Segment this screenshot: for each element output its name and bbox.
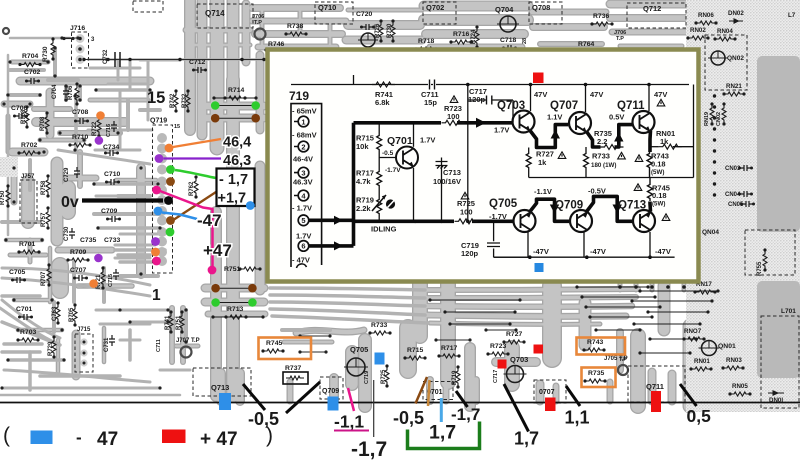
- resistor RN03: [724, 366, 742, 370]
- capacitor C717 wire: [468, 100, 513, 122]
- svg-text:C734: C734: [103, 144, 119, 151]
- inset labels: [289, 87, 675, 265]
- node marker purple: [155, 154, 164, 163]
- svg-text:Q702: Q702: [426, 3, 444, 12]
- svg-text:15p: 15p: [424, 98, 437, 107]
- svg-text:1,7: 1,7: [429, 422, 456, 444]
- wire Q707 collector: [585, 85, 587, 113]
- capacitor CN05: [742, 201, 753, 207]
- svg-text:46,4: 46,4: [223, 135, 251, 151]
- pointer brown: [416, 377, 428, 404]
- svg-text:L701: L701: [781, 308, 796, 315]
- capacitor C711: [430, 80, 435, 90]
- svg-text:(5W): (5W): [651, 169, 664, 176]
- svg-text:15: 15: [147, 89, 165, 107]
- wire vertical join: [352, 123, 356, 246]
- svg-text:47: 47: [97, 429, 118, 450]
- svg-text:R727: R727: [506, 331, 522, 338]
- marker red square top: [533, 73, 544, 84]
- node marker blue: [154, 207, 163, 216]
- wire Q701 collector: [413, 123, 415, 147]
- svg-text:J716: J716: [70, 25, 85, 32]
- svg-text:T.P: T.P: [254, 20, 262, 26]
- resistor R701: [20, 250, 38, 254]
- svg-text:C709: C709: [101, 208, 117, 215]
- resistor R719 pot: [377, 198, 382, 214]
- pad marker brown: [251, 114, 260, 123]
- svg-text:J707 T.P: J707 T.P: [176, 338, 200, 344]
- svg-text:R751: R751: [224, 266, 240, 273]
- svg-text:R701: R701: [19, 241, 35, 248]
- resistor R715: [378, 123, 380, 134]
- svg-text:0.5V: 0.5V: [609, 113, 624, 122]
- resistor RN17: [696, 290, 714, 294]
- resistor R714: [226, 96, 244, 100]
- resistor R727b: [505, 340, 523, 344]
- svg-text:C707: C707: [70, 267, 86, 274]
- svg-text:1,1: 1,1: [565, 408, 590, 428]
- svg-text:719: 719: [289, 89, 309, 103]
- svg-text:C705: C705: [9, 269, 25, 276]
- svg-text:-1.1V: -1.1V: [534, 187, 552, 196]
- node marker magenta: [152, 186, 161, 195]
- test point TP: [3, 28, 9, 34]
- svg-text:46-4V: 46-4V: [293, 155, 313, 164]
- svg-text:Q704: Q704: [495, 5, 514, 14]
- wire Q713 emitter up: [648, 202, 652, 212]
- transistor Q705b: [347, 358, 365, 376]
- resistor R702: [20, 151, 38, 155]
- svg-text:R704: R704: [22, 53, 38, 60]
- wire output node line: [529, 177, 694, 179]
- svg-text:J757: J757: [21, 174, 35, 180]
- svg-text:L7: L7: [788, 12, 796, 19]
- resistor R745b: [648, 178, 653, 202]
- highlight R743: [577, 338, 626, 355]
- component outline Q711 outline: [628, 366, 685, 402]
- svg-text:C716: C716: [106, 124, 112, 137]
- transistor Q709: [570, 210, 592, 232]
- pad marker green: [248, 298, 257, 307]
- capacitor C729: [74, 167, 80, 178]
- capacitor CN04: [740, 191, 751, 197]
- capacitor C731: [109, 335, 115, 346]
- svg-text:C708: C708: [72, 109, 88, 116]
- wire right edge: [693, 85, 695, 178]
- svg-text:C733: C733: [104, 237, 120, 244]
- resistor R717b: [440, 354, 458, 358]
- pot wiper R719 circle: [386, 199, 395, 208]
- svg-text:Q713: Q713: [618, 200, 646, 212]
- node marker magenta end: [208, 266, 217, 275]
- resistor R743: [647, 152, 652, 178]
- capacitor C715: [113, 269, 119, 280]
- capacitor C719: [487, 221, 530, 257]
- svg-text:T.P: T.P: [619, 357, 627, 363]
- component outline 0707 outline: [534, 380, 566, 403]
- wire Q713 emitter down: [649, 232, 651, 257]
- svg-text:- 65mV: - 65mV: [292, 107, 317, 116]
- svg-text:+1,7: +1,7: [218, 191, 247, 207]
- svg-text:-0.5V: -0.5V: [588, 187, 606, 196]
- svg-text:47V: 47V: [534, 90, 547, 99]
- svg-text:0v: 0v: [61, 194, 79, 211]
- svg-text:Q711: Q711: [617, 100, 645, 112]
- capacitor C705: [13, 277, 24, 283]
- wire Q709 collector path: [587, 196, 633, 221]
- svg-text:C717: C717: [493, 370, 499, 383]
- svg-text:C701: C701: [16, 306, 32, 313]
- resistor R718: [417, 47, 435, 51]
- capacitor C709: [108, 216, 119, 222]
- svg-text:R737: R737: [285, 365, 301, 372]
- svg-text:R715: R715: [407, 347, 423, 354]
- pad marker brown: [211, 284, 220, 293]
- svg-text:R750: R750: [0, 190, 6, 205]
- svg-text:-47: -47: [197, 211, 222, 230]
- svg-text:R757: R757: [41, 212, 47, 227]
- component outline Q701 outline: [423, 382, 453, 400]
- node pin 5: [298, 215, 309, 226]
- svg-text:0,5: 0,5: [687, 406, 712, 426]
- svg-text:R713: R713: [227, 306, 243, 313]
- resistor R735 boxed: [586, 379, 604, 383]
- svg-text:15: 15: [174, 124, 180, 130]
- resistor R703: [19, 338, 37, 342]
- resistor R716: [452, 40, 470, 44]
- svg-text:0.18: 0.18: [652, 191, 667, 200]
- svg-text:C720: C720: [356, 11, 372, 18]
- transistor QN01t: [702, 341, 717, 356]
- resistor R741: [372, 82, 395, 87]
- transistor Q705: [514, 210, 536, 232]
- resistor R764: [577, 50, 595, 54]
- svg-text:R738: R738: [287, 23, 303, 30]
- svg-text:-47V: -47V: [655, 247, 671, 256]
- node marker purple: [151, 237, 160, 246]
- svg-text:Q712: Q712: [643, 4, 661, 13]
- svg-text:-47V: -47V: [533, 247, 549, 256]
- resistor R737 box: [283, 372, 308, 384]
- node junction dots on rail: [466, 83, 651, 87]
- svg-text:10k: 10k: [356, 142, 369, 151]
- svg-text:100: 100: [447, 112, 460, 121]
- svg-text:R706: R706: [68, 85, 74, 100]
- svg-text:2: 2: [301, 142, 305, 151]
- capacitor C707: [75, 275, 86, 281]
- marker red 1: [498, 360, 507, 369]
- svg-text:Q713: Q713: [211, 383, 229, 392]
- svg-text:RN03: RN03: [726, 357, 742, 364]
- marker blue Q709: [328, 397, 339, 411]
- resistor R717: [377, 170, 382, 186]
- component outline J715: [75, 334, 93, 372]
- resistor R735: [601, 145, 624, 150]
- transistor Q704t: [500, 16, 516, 32]
- svg-text:Q708: Q708: [532, 3, 550, 12]
- marker blue square bottom: [535, 263, 544, 272]
- svg-text:180 (1W): 180 (1W): [591, 162, 616, 169]
- svg-text:0707: 0707: [539, 389, 555, 396]
- svg-text:C702: C702: [24, 69, 40, 76]
- node pin 4: [298, 190, 309, 201]
- capacitor C702: [27, 78, 38, 84]
- svg-text:R723: R723: [490, 343, 506, 350]
- transistor Q713: [633, 210, 655, 232]
- svg-text:120p: 120p: [461, 249, 479, 258]
- pointer cyan: [440, 398, 443, 422]
- svg-text:R735: R735: [588, 370, 604, 377]
- transistor Q707: [569, 112, 591, 134]
- svg-text:0.18: 0.18: [651, 160, 666, 169]
- wire bottom -47V rail: [494, 256, 675, 258]
- leader blue: [162, 213, 197, 220]
- capacitor C706: [15, 113, 26, 119]
- wire Q709 emitter down: [583, 232, 585, 257]
- svg-text:C718: C718: [500, 37, 516, 44]
- svg-text:-0,5: -0,5: [248, 409, 279, 429]
- capacitor C716: [111, 121, 117, 132]
- resistor R709: [69, 258, 87, 262]
- svg-text:RN06: RN06: [698, 12, 714, 19]
- wire Q711 emitter down: [648, 131, 652, 153]
- wire tick: [353, 75, 355, 85]
- transistor Q703: [513, 111, 535, 133]
- box 1,7: [217, 169, 255, 207]
- svg-text:R764: R764: [578, 41, 594, 48]
- pad marker green: [211, 298, 220, 307]
- wire 0v: [82, 198, 163, 202]
- svg-text:R745: R745: [266, 340, 282, 347]
- resistor R727: [528, 148, 530, 153]
- svg-text:R714: R714: [228, 87, 244, 94]
- wire Q705 emitter down: [527, 231, 529, 257]
- node marker brown: [166, 177, 175, 186]
- svg-text:C735: C735: [80, 237, 96, 244]
- node marker magenta: [152, 257, 161, 266]
- marker blue Q713: [219, 393, 231, 410]
- svg-text:R758: R758: [41, 180, 47, 195]
- resistor R725: [455, 219, 478, 224]
- capacitor C704: [63, 87, 69, 98]
- pad marker green: [251, 101, 260, 110]
- svg-text:Q714: Q714: [205, 9, 225, 18]
- svg-text:4.7k: 4.7k: [356, 177, 371, 186]
- svg-text:R762: R762: [189, 181, 195, 196]
- node marker brown: [166, 216, 175, 225]
- resistor RN21: [725, 92, 743, 96]
- svg-text:Q709: Q709: [555, 200, 583, 212]
- marker red 0707: [545, 398, 556, 412]
- svg-text:IDLING: IDLING: [371, 225, 397, 234]
- svg-text:R730: R730: [42, 46, 49, 62]
- pad marker purple: [95, 136, 104, 145]
- resistor R745 boxed: [264, 349, 282, 353]
- leader purple: [164, 157, 222, 159]
- bracket 1,7: [408, 422, 480, 449]
- wire Q703 collector: [530, 85, 532, 112]
- wire R735 to Q711 base: [615, 125, 633, 147]
- leader orange: [173, 139, 221, 147]
- node pin 3: [298, 167, 309, 178]
- svg-text:1.1V: 1.1V: [547, 113, 562, 122]
- svg-text:Q711: Q711: [646, 382, 664, 391]
- svg-text:RN02: RN02: [690, 27, 706, 34]
- resistor RN06: [697, 21, 715, 25]
- resistor RN01: [650, 146, 659, 148]
- svg-text:(5W): (5W): [652, 201, 665, 208]
- wire Q705 collector path: [530, 199, 569, 221]
- svg-text:RN04: RN04: [717, 28, 733, 35]
- svg-text:3: 3: [301, 168, 305, 177]
- pointer magenta: [348, 388, 354, 411]
- capacitor C708: [76, 118, 87, 124]
- svg-text:1,7: 1,7: [514, 429, 539, 449]
- svg-text:R716: R716: [453, 31, 469, 38]
- svg-text:1.7V: 1.7V: [296, 232, 311, 241]
- svg-text:Q719: Q719: [150, 118, 167, 125]
- svg-text:C732: C732: [103, 49, 109, 64]
- capacitor C701: [20, 314, 31, 320]
- transistor Q701: [396, 147, 418, 169]
- wire Q701 emitter: [413, 168, 415, 221]
- baseline: [0, 402, 800, 404]
- svg-text:46,3: 46,3: [223, 153, 251, 169]
- node pin 2: [298, 141, 309, 152]
- colored annotations: [0, 89, 800, 461]
- resistor RN01b: [692, 367, 710, 371]
- svg-text:Q707: Q707: [550, 100, 578, 112]
- svg-text:R710: R710: [72, 134, 88, 141]
- test point J705: [618, 365, 628, 375]
- node marker orange: [151, 248, 160, 257]
- transistor Q710t: [361, 33, 375, 47]
- svg-text:R709: R709: [70, 249, 86, 256]
- capacitor C732: [115, 52, 120, 67]
- node marker green: [166, 228, 175, 237]
- svg-text:C712: C712: [189, 59, 205, 66]
- wire vertical from rail to lower rail: [467, 85, 469, 222]
- node pin 1: [298, 116, 309, 127]
- pad marker brown: [248, 284, 257, 293]
- svg-text:47V: 47V: [654, 90, 667, 99]
- arrows on signal path: [334, 118, 624, 251]
- svg-text:T.P: T.P: [616, 36, 624, 42]
- component outline top edge connector: [133, 1, 163, 12]
- resistor R743 boxed: [585, 348, 603, 352]
- svg-text:2.2k: 2.2k: [356, 204, 371, 213]
- resistor R736: [593, 22, 611, 26]
- svg-text:-0,5: -0,5: [393, 408, 424, 428]
- svg-text:Q705: Q705: [489, 198, 518, 210]
- svg-text:6.8k: 6.8k: [375, 98, 390, 107]
- marker blue Q705: [375, 353, 385, 365]
- resistor R704: [21, 63, 39, 67]
- svg-text:5: 5: [301, 216, 305, 225]
- wire Q707 emitter path: [587, 132, 601, 148]
- svg-text:1: 1: [152, 287, 161, 304]
- component outline Q713 outline: [193, 368, 251, 396]
- svg-text:R717: R717: [441, 345, 457, 352]
- svg-text:RN01: RN01: [694, 358, 710, 365]
- transistor QN02t: [711, 51, 725, 65]
- component outline QN02 outline: [705, 35, 747, 90]
- svg-text:Q703: Q703: [510, 355, 528, 364]
- svg-text:DN02: DN02: [728, 10, 744, 17]
- highlight R735: [582, 368, 616, 388]
- svg-text:- 1,7: - 1,7: [219, 172, 248, 188]
- resistor RNO7: [685, 337, 703, 341]
- wire input 6: [309, 244, 354, 248]
- capacitor C712: [194, 67, 205, 73]
- wire Q701 base: [379, 157, 395, 159]
- svg-text:R707: R707: [41, 271, 47, 286]
- svg-text:Q709: Q709: [322, 388, 339, 395]
- svg-text:R743: R743: [587, 339, 603, 346]
- resistor R730: [51, 40, 55, 58]
- node marker blue2: [246, 201, 255, 210]
- pad marker brown: [211, 114, 220, 123]
- svg-text:-1.7V: -1.7V: [489, 212, 507, 221]
- svg-text:QN04: QN04: [702, 229, 719, 236]
- marker red 2: [534, 345, 544, 354]
- resistor R723b: [489, 352, 507, 356]
- component outline L701 outline: [761, 316, 799, 408]
- svg-text:100: 100: [460, 208, 473, 217]
- svg-text:(: (: [3, 424, 10, 447]
- svg-text:120p: 120p: [468, 95, 486, 104]
- svg-text:Q701: Q701: [387, 135, 413, 147]
- svg-text:R733: R733: [592, 152, 610, 161]
- svg-text:R722: R722: [92, 121, 98, 136]
- svg-text:Q703: Q703: [497, 100, 525, 112]
- resistor R733: [585, 147, 587, 152]
- svg-text:QN02: QN02: [727, 55, 744, 62]
- svg-text:R736: R736: [593, 13, 609, 20]
- wire input 5: [309, 219, 354, 223]
- component outline CN outline: [745, 230, 795, 275]
- component outline Q709 outline: [320, 377, 343, 399]
- svg-text:-1,7: -1,7: [351, 438, 387, 461]
- svg-text:- 47V: - 47V: [292, 256, 310, 265]
- node pin 6: [298, 241, 309, 252]
- svg-text:R702: R702: [21, 142, 37, 149]
- leader magenta: [160, 191, 213, 269]
- connector block Q719: [291, 104, 322, 268]
- svg-text:+ 47: + 47: [200, 429, 238, 450]
- svg-text:6: 6: [301, 242, 305, 251]
- svg-text:C704: C704: [52, 84, 58, 99]
- svg-text:2.2: 2.2: [597, 137, 607, 146]
- resistor R738: [287, 32, 305, 36]
- svg-text:100/16V: 100/16V: [433, 177, 461, 186]
- svg-text:QN01: QN01: [718, 343, 736, 350]
- pad marker orange: [89, 279, 98, 288]
- capacitor C717 plates: [487, 96, 492, 105]
- svg-text:46.3V: 46.3V: [293, 178, 313, 187]
- pointer lines: [243, 382, 697, 432]
- component outline J757: [20, 180, 37, 223]
- svg-text:C713: C713: [443, 168, 461, 177]
- svg-text:R703: R703: [20, 329, 36, 336]
- svg-text:1k: 1k: [538, 158, 547, 167]
- marker red Q711: [651, 391, 661, 412]
- resistor R723: [442, 120, 465, 125]
- svg-text:-1,7: -1,7: [451, 405, 480, 424]
- svg-text:28: 28: [522, 38, 528, 44]
- svg-text:C711: C711: [156, 339, 162, 352]
- svg-text:Q710: Q710: [318, 3, 336, 12]
